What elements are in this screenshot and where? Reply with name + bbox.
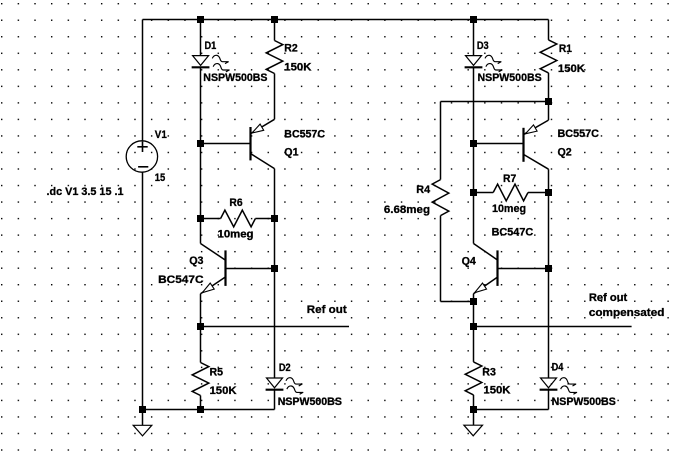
svg-text:R7: R7: [503, 173, 516, 185]
svg-text:D2: D2: [279, 362, 291, 374]
junction top rail / R2: [271, 16, 278, 23]
svg-text:V1: V1: [155, 129, 167, 141]
wire bottom rail left: [143, 409, 275, 411]
diode D1 (LED): [193, 56, 209, 66]
wire R7 right node to Q4 base node: [548, 193, 550, 269]
ground symbol right: [464, 425, 483, 436]
wire Q1 collector to R6 right node: [274, 169, 276, 219]
svg-text:Ref out: Ref out: [589, 292, 628, 304]
junction top rail / D1: [197, 16, 204, 23]
junction Q4 base node: [545, 265, 552, 272]
svg-text:NSPW500BS: NSPW500BS: [478, 72, 542, 84]
wire R4 top link: [441, 101, 549, 103]
wire top rail to D3 anode: [473, 20, 475, 56]
svg-text:BC557C: BC557C: [558, 128, 599, 140]
svg-text:R6: R6: [229, 197, 242, 209]
LED D3 light arrows: [485, 55, 501, 63]
svg-text:10meg: 10meg: [218, 228, 254, 240]
wire R6 right node to Q3 base node: [274, 219, 276, 269]
wire R5 to bottom rail: [200, 396, 202, 410]
wire net Ref out: [201, 326, 350, 328]
svg-text:NSPW500BS: NSPW500BS: [203, 72, 267, 84]
svg-text:R1: R1: [559, 43, 572, 55]
LED D4 light arrows: [560, 378, 576, 386]
svg-text:BC557C: BC557C: [284, 128, 325, 140]
diode D2 (LED): [267, 378, 283, 388]
junction bottom rail / R3 / ground: [470, 406, 477, 413]
wire left rail lower (V1 minus to bottom rail): [142, 172, 144, 409]
wire Q2 base node down to R7 left node: [473, 144, 475, 193]
svg-text:.dc V1 3.5 15 .1: .dc V1 3.5 15 .1: [47, 186, 124, 198]
wire bottom rail right: [474, 409, 549, 411]
wire top rail to R1: [548, 20, 550, 40]
voltage source V1: [126, 141, 157, 172]
svg-text:Q3: Q3: [189, 255, 203, 267]
wire Q2 emitter stub: [548, 102, 550, 121]
transistor Q4 BC547C (NPN, mirrored): [496, 250, 498, 286]
wire R6 right stub: [255, 218, 274, 220]
svg-text:NSPW500BS: NSPW500BS: [278, 396, 342, 408]
wire Q1 base: [201, 143, 251, 145]
wire R2 to Q1 emitter: [274, 74, 276, 120]
wire Q3 base node down to D2 anode: [274, 269, 276, 379]
junction Q2 base node: [470, 140, 477, 147]
svg-text:Q1: Q1: [284, 147, 298, 159]
resistor R3: [465, 362, 482, 395]
svg-text:150K: 150K: [210, 385, 237, 397]
transistor Q1 BC557C (PNP): [249, 127, 251, 160]
svg-text:R3: R3: [482, 366, 496, 378]
wire Q4 base node down to D4 anode: [548, 269, 550, 379]
svg-text:R5: R5: [210, 367, 224, 379]
svg-text:6.68meg: 6.68meg: [384, 204, 430, 216]
junction R7 left node: [470, 189, 477, 196]
junction Q1 base node: [197, 140, 204, 147]
svg-text:10meg: 10meg: [492, 203, 526, 215]
wire top rail to R2: [274, 20, 276, 41]
svg-text:150K: 150K: [483, 384, 510, 396]
wire Q4 emitter node to Ref out compensated node: [473, 302, 475, 327]
svg-text:BC547C: BC547C: [492, 227, 534, 239]
svg-text:150K: 150K: [558, 63, 585, 75]
wire R4 lower stub: [440, 216, 442, 302]
wire R1 to R4 node: [548, 73, 550, 102]
junction bottom rail / V1: [139, 406, 146, 413]
wire R7 left node to Q4 collector: [473, 193, 475, 244]
wire Q2 base: [474, 143, 524, 145]
resistor R7: [493, 184, 528, 201]
junction R6 left node: [197, 215, 204, 222]
LED D2 light arrows: [286, 378, 302, 386]
svg-text:NSPW500BS: NSPW500BS: [552, 396, 616, 408]
junction top rail / D3: [470, 16, 477, 23]
wire R6 left stub: [201, 218, 221, 220]
junction Q3 base node: [271, 265, 278, 272]
svg-text:R2: R2: [284, 43, 297, 55]
wire Q3 emitter to Ref out node: [200, 294, 202, 327]
resistor R2: [266, 41, 283, 74]
junction R1 / R4 / Q2 emitter node: [545, 98, 552, 105]
resistor R1: [540, 40, 557, 73]
wire ground stub right: [473, 410, 475, 426]
transistor Q3 BC547C (NPN, mirrored): [224, 250, 226, 286]
wire Q2 collector to R7 right node: [548, 169, 550, 192]
wire D4 cathode stub: [548, 390, 550, 410]
svg-text:Q2: Q2: [558, 147, 572, 159]
wire R6 left node to Q3 collector: [200, 219, 202, 244]
svg-text:15: 15: [155, 172, 166, 184]
resistor R6: [221, 210, 256, 227]
svg-text:D1: D1: [205, 40, 217, 52]
junction Ref out compensated node: [470, 323, 477, 330]
svg-text:D4: D4: [552, 362, 565, 374]
wire Q1 base node down to R6 left node: [200, 144, 202, 219]
junction R6 right node: [271, 215, 278, 222]
wire D1 cathode to Q1 base node: [200, 67, 202, 143]
svg-text:150K: 150K: [284, 61, 311, 73]
wire R7 left stub: [474, 192, 494, 194]
junction bottom rail / R5: [197, 406, 204, 413]
LED D1 light arrows: [212, 55, 228, 63]
wire R7 right stub: [528, 192, 549, 194]
diode D4 (LED): [541, 378, 557, 388]
wire top supply rail: [143, 19, 549, 21]
wire Ref out compensated node to R3: [473, 327, 475, 362]
svg-text:D3: D3: [477, 40, 489, 52]
svg-text:compensated: compensated: [589, 307, 665, 319]
wire left rail upper (top rail to V1 plus): [142, 20, 144, 142]
svg-text:Q4: Q4: [462, 255, 477, 267]
svg-text:R4: R4: [416, 184, 431, 196]
junction Q4 emitter / R4 node: [470, 298, 477, 305]
resistor R4 (mirrored): [432, 180, 449, 216]
resistor R5: [192, 363, 209, 396]
junction R7 right node: [545, 189, 552, 196]
wire net Ref out compensated: [474, 326, 632, 328]
ground symbol left: [133, 425, 152, 436]
wire ground stub left: [142, 410, 144, 426]
transistor Q2 BC557C (PNP): [522, 128, 524, 162]
wire R3 to bottom rail: [473, 395, 475, 410]
svg-text:Ref out: Ref out: [307, 304, 347, 316]
wire R4 to Q4 emitter node: [441, 301, 474, 303]
wire D2 cathode stub: [274, 390, 276, 410]
wire R4 upper stub: [440, 102, 442, 180]
wire top rail to D1 anode: [200, 20, 202, 56]
diode D3 (LED): [466, 56, 482, 66]
svg-text:BC547C: BC547C: [158, 274, 203, 286]
wire Ref out node to R5: [200, 327, 202, 363]
wire Q4 emitter stub: [473, 294, 475, 302]
wire D3 cathode to Q2 base node: [473, 67, 475, 143]
junction Ref out node: [197, 323, 204, 330]
